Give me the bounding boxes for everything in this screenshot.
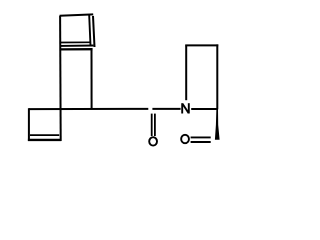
amide C=O double bond line 1 bbox=[151, 114, 153, 136]
bond: top ring bottom edge bbox=[60, 45, 93, 47]
bond: N-ring right side bbox=[216, 44, 218, 109]
bond: long left vertical (top ring left side / lower ring right side) bbox=[59, 16, 62, 141]
aldehyde C=O double bond line 1 bbox=[191, 136, 211, 138]
amide C=O double bond line 2 bbox=[154, 114, 156, 136]
double bond outer line: top ring right side bbox=[93, 16, 95, 47]
bond: lower ring bottom edge bbox=[28, 139, 61, 141]
bond: N-ring bottom edge (N to stereocenter) bbox=[191, 108, 217, 110]
double bond inner line: lower ring bottom edge bbox=[30, 134, 59, 136]
bond: middle ring right side bbox=[91, 49, 93, 109]
bond: lower ring left side bbox=[28, 108, 30, 141]
bond: N-ring top edge bbox=[185, 44, 218, 46]
wedge bond: stereocenter down to aldehyde carbon bbox=[215, 108, 220, 140]
bond: horizontal chain (lower ring top edge through to carbonyl carbon) bbox=[29, 108, 148, 110]
atom label N (ring nitrogen) bbox=[182, 103, 189, 113]
aldehyde C=O double bond line 2 bbox=[191, 141, 211, 143]
double bond inner line: top ring bottom edge bbox=[61, 41, 90, 43]
bond: N-ring left side (N up to top-left corner) bbox=[185, 45, 187, 100]
bond: top ring top edge bbox=[60, 14, 94, 15]
bond: middle ring top edge bbox=[60, 48, 93, 51]
atom label O (aldehyde oxygen) bbox=[181, 135, 189, 143]
atom label O (amide oxygen) bbox=[149, 137, 157, 145]
bond: carbonyl carbon to ring nitrogen bbox=[152, 108, 180, 110]
double bond inner line: top ring right side bbox=[89, 15, 90, 45]
